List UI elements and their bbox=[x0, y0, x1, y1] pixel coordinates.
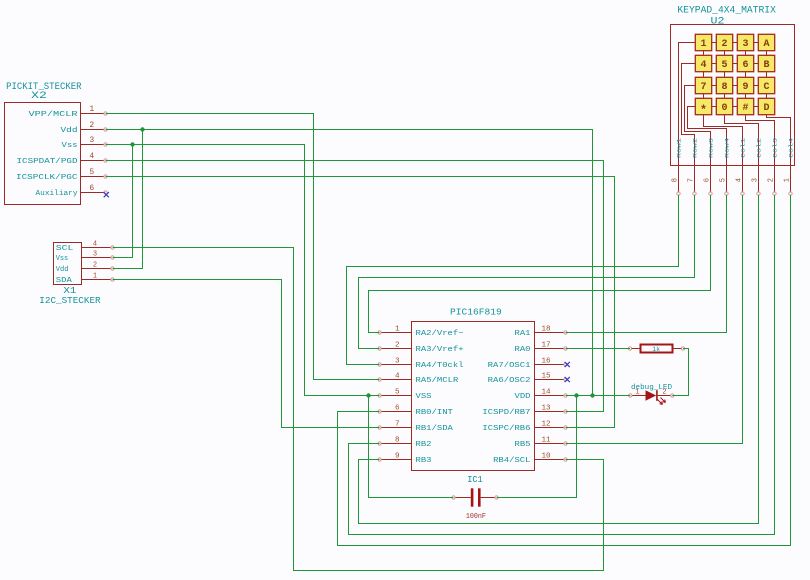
svg-text:RA1: RA1 bbox=[515, 330, 532, 338]
svg-text:RA7/OSC1: RA7/OSC1 bbox=[488, 362, 531, 370]
keypad key # bbox=[737, 98, 753, 114]
IC1 pin 13 ICSPD/RB7 bbox=[482, 404, 567, 417]
keypad key A bbox=[758, 34, 774, 50]
keypad pin 1 Col4 bbox=[784, 137, 795, 195]
X1 pin 2 Vdd bbox=[56, 262, 114, 274]
wire net Vdd branch to X1 pin2 bbox=[113, 130, 143, 269]
no-connect on IC1 pin 16 RA7/OSC1 bbox=[565, 362, 570, 367]
X2 pin 6 Auxiliary bbox=[36, 184, 108, 198]
svg-text:0: 0 bbox=[721, 103, 727, 114]
wire net ICSPDAT/PGD: X2 pin4 to IC1 pin13 bbox=[106, 161, 604, 412]
svg-text:1: 1 bbox=[93, 273, 97, 281]
keypad key 2 bbox=[716, 34, 732, 50]
keypad key C bbox=[758, 77, 774, 93]
svg-text:KEYPAD_4X4_MATRIX: KEYPAD_4X4_MATRIX bbox=[677, 6, 776, 17]
svg-text:Col1: Col1 bbox=[740, 137, 747, 158]
svg-text:4: 4 bbox=[395, 372, 400, 380]
IC U1 IC1 PIC16F819 body bbox=[412, 322, 535, 471]
IC1 pin 9 RB3 bbox=[378, 452, 432, 465]
connector X1 title I2C_STECKER bbox=[39, 296, 101, 306]
keypad pin 5 Row4 bbox=[720, 137, 731, 195]
keypad title KEYPAD_4X4_MATRIX bbox=[677, 6, 776, 17]
svg-text:2: 2 bbox=[93, 262, 97, 270]
IC1 pin 2 RA3/Vref+ bbox=[378, 341, 464, 354]
svg-text:1: 1 bbox=[89, 105, 94, 114]
connector X1 refdes X1 bbox=[63, 286, 76, 296]
svg-text:X2: X2 bbox=[31, 91, 47, 102]
capacitor pin 2 bbox=[481, 496, 499, 499]
svg-text:17: 17 bbox=[542, 341, 551, 349]
svg-text:SDA: SDA bbox=[56, 277, 73, 285]
resistor R1 value 1k bbox=[652, 346, 660, 353]
svg-text:2: 2 bbox=[395, 341, 400, 349]
connector X2 title PICKIT_STECKER bbox=[6, 82, 81, 93]
capacitor value 100nF bbox=[466, 513, 486, 521]
LED debug_LED body bbox=[646, 390, 666, 404]
X2 pin 2 Vdd bbox=[61, 121, 108, 135]
keypad internal net Col1 bbox=[704, 115, 743, 166]
wire net Vss branch: IC1 pin5 junction to capacitor pin1 bbox=[369, 396, 454, 498]
svg-text:9: 9 bbox=[395, 452, 400, 460]
svg-text:3: 3 bbox=[395, 357, 400, 365]
svg-text:10: 10 bbox=[542, 452, 552, 460]
svg-text:8: 8 bbox=[721, 82, 727, 93]
wire net SCL: X1 pin4 to IC1 pin10 RB4/SCL bbox=[113, 248, 604, 571]
IC1 pin 15 RA6/OSC2 bbox=[488, 372, 568, 385]
junction Vdd / X1 branch bbox=[140, 127, 144, 131]
junction Vss / X1 branch bbox=[130, 142, 134, 146]
keypad pin 7 Row2 bbox=[688, 137, 699, 195]
X2 pin 3 Vss bbox=[62, 136, 108, 150]
keypad key 1 bbox=[695, 34, 711, 50]
svg-text:2: 2 bbox=[768, 178, 776, 182]
no-connect on IC1 pin 15 RA6/OSC2 bbox=[565, 377, 570, 382]
svg-text:VSS: VSS bbox=[416, 393, 433, 401]
keypad internal net Col3 bbox=[746, 115, 775, 166]
keypad internal net Col2 bbox=[725, 115, 759, 166]
svg-text:3: 3 bbox=[93, 251, 97, 259]
svg-text:RB0/INT: RB0/INT bbox=[416, 409, 454, 417]
keypad key 9 bbox=[737, 77, 753, 93]
wire net Vss branch to X1 pin3 bbox=[113, 145, 133, 258]
svg-text:3: 3 bbox=[742, 39, 748, 50]
X1 pin 4 SCL bbox=[56, 241, 114, 253]
IC1 pin 16 RA7/OSC1 bbox=[488, 357, 568, 370]
wire net SDA: X1 pin1 to IC1 pin7 RB1/SDA bbox=[113, 280, 380, 428]
wire net VDD: IC1 pin14 to LED pin1 bbox=[566, 395, 631, 397]
LED debug_LED pin 2 bbox=[657, 389, 674, 397]
IC1 pin 5 VSS bbox=[378, 388, 432, 401]
svg-text:6: 6 bbox=[704, 178, 712, 182]
X1 pin 3 Vss bbox=[56, 251, 114, 263]
svg-text:13: 13 bbox=[542, 404, 552, 412]
svg-text:2: 2 bbox=[662, 389, 666, 397]
keypad internal row and column connection wires bbox=[704, 43, 767, 107]
svg-text:RA0: RA0 bbox=[515, 346, 532, 354]
svg-text:5: 5 bbox=[395, 388, 400, 396]
keypad key * bbox=[695, 98, 711, 117]
svg-text:18: 18 bbox=[542, 325, 552, 333]
svg-text:9: 9 bbox=[742, 82, 748, 93]
svg-text:D: D bbox=[763, 103, 769, 114]
svg-text:#: # bbox=[742, 103, 748, 114]
svg-text:1: 1 bbox=[700, 39, 706, 50]
X2 pin 4 ICSPDAT/PGD bbox=[17, 152, 108, 166]
junction VDD / Vdd from X2 bbox=[590, 393, 594, 397]
svg-text:RB1/SDA: RB1/SDA bbox=[416, 425, 454, 433]
svg-text:7: 7 bbox=[395, 420, 400, 428]
IC1 pin 10 RB4/SCL bbox=[493, 452, 567, 465]
keypad pin 3 Col2 bbox=[752, 137, 763, 195]
svg-text:RB2: RB2 bbox=[416, 441, 432, 449]
svg-text:A: A bbox=[763, 39, 769, 50]
wire net Vss: X2 pin3 to IC1 pin5 VSS bbox=[106, 145, 380, 396]
svg-text:4: 4 bbox=[700, 60, 706, 71]
svg-text:RB3: RB3 bbox=[416, 457, 433, 465]
svg-text:C: C bbox=[763, 82, 769, 93]
LED debug_LED label bbox=[631, 384, 672, 392]
svg-text:3: 3 bbox=[89, 136, 94, 145]
resistor R1 1k body bbox=[641, 345, 673, 353]
IC1 pin 12 ICSPC/RB6 bbox=[482, 420, 567, 433]
IC1 pin 6 RB0/INT bbox=[378, 404, 454, 417]
IC1 pin 8 RB2 bbox=[378, 436, 432, 449]
svg-text:Vdd: Vdd bbox=[56, 266, 69, 274]
svg-text:3: 3 bbox=[752, 178, 760, 182]
svg-text:Row1: Row1 bbox=[676, 137, 683, 158]
keypad internal net Row3 bbox=[685, 86, 711, 166]
svg-text:2: 2 bbox=[89, 121, 94, 130]
IC1 pin 7 RB1/SDA bbox=[378, 420, 454, 433]
no-connect on X2 pin 6 Auxiliary bbox=[104, 192, 109, 197]
wire net Row1: keypad pin8 to IC1 pin3 RA4 bbox=[347, 195, 679, 365]
svg-text:VPP/MCLR: VPP/MCLR bbox=[29, 111, 79, 119]
svg-text:ICSPC/RB6: ICSPC/RB6 bbox=[482, 425, 531, 433]
wire net Row3: keypad pin6 to IC1 pin1 RA2 bbox=[369, 195, 711, 333]
svg-text:RA2/Vref−: RA2/Vref− bbox=[416, 330, 465, 338]
keypad key 5 bbox=[716, 55, 732, 71]
svg-text:ICSPCLK/PGC: ICSPCLK/PGC bbox=[16, 174, 78, 182]
capacitor 100nF body bbox=[471, 488, 481, 506]
svg-text:4: 4 bbox=[89, 152, 94, 161]
svg-text:RB5: RB5 bbox=[515, 441, 532, 449]
IC1 pin 1 RA2/Vref− bbox=[378, 325, 464, 338]
svg-text:7: 7 bbox=[700, 82, 706, 93]
keypad key 4 bbox=[695, 55, 711, 71]
capacitor pin 1 bbox=[452, 496, 471, 499]
IC1 refdes IC1 bbox=[467, 474, 483, 485]
svg-text:Row3: Row3 bbox=[708, 137, 715, 158]
svg-text:X1: X1 bbox=[63, 286, 76, 296]
connector X2 PICKIT_STECKER body bbox=[5, 103, 81, 205]
svg-text:PIC16F819: PIC16F819 bbox=[450, 307, 502, 318]
keypad pin 6 Row3 bbox=[704, 137, 715, 195]
wire net Row2: keypad pin7 to IC1 pin2 RA3 bbox=[359, 195, 695, 349]
keypad key 0 bbox=[716, 98, 732, 114]
IC1 pin 11 RB5 bbox=[515, 436, 568, 449]
svg-text:Vdd: Vdd bbox=[61, 127, 78, 135]
svg-text:1: 1 bbox=[395, 325, 400, 333]
svg-text:1: 1 bbox=[784, 178, 792, 182]
svg-text:8: 8 bbox=[395, 436, 400, 444]
wire net RA0: IC1 pin17 to resistor R1 pin1 bbox=[566, 348, 631, 350]
keypad internal net Row2 bbox=[682, 64, 696, 166]
svg-text:11: 11 bbox=[542, 436, 552, 444]
svg-text:Row2: Row2 bbox=[692, 137, 699, 158]
keypad key D bbox=[758, 98, 774, 114]
keypad key 3 bbox=[737, 34, 753, 50]
wire net Col3: keypad pin2 to IC1 pin8 RB2 bbox=[349, 195, 775, 535]
IC1 title PIC16F819 bbox=[450, 307, 502, 318]
svg-text:SCL: SCL bbox=[56, 245, 74, 253]
svg-text:Col2: Col2 bbox=[756, 137, 763, 158]
svg-text:RB4/SCL: RB4/SCL bbox=[493, 457, 531, 465]
X1 pin 1 SDA bbox=[56, 273, 114, 285]
svg-text:5: 5 bbox=[721, 60, 727, 71]
svg-text:ICSPD/RB7: ICSPD/RB7 bbox=[482, 409, 530, 417]
keypad pin 2 Col3 bbox=[768, 137, 779, 195]
junction VSS / capacitor branch bbox=[366, 393, 370, 397]
svg-text:RA6/OSC2: RA6/OSC2 bbox=[488, 377, 531, 385]
keypad internal net Row1 bbox=[679, 43, 696, 166]
svg-text:4: 4 bbox=[736, 178, 744, 182]
svg-text:Auxiliary: Auxiliary bbox=[36, 190, 78, 198]
wire net Col1: keypad pin4 to IC1 pin11 RB5 bbox=[566, 195, 743, 444]
svg-text:VDD: VDD bbox=[515, 393, 532, 401]
wire net Vdd: X2 pin2 to VDD junction bbox=[106, 130, 593, 396]
keypad refdes U2 bbox=[711, 17, 725, 28]
svg-text:1k: 1k bbox=[652, 346, 660, 353]
svg-text:RA4/T0ckl: RA4/T0ckl bbox=[416, 362, 465, 370]
wire net resistor R1 pin2 to LED pin2 bbox=[672, 349, 688, 396]
svg-text:12: 12 bbox=[542, 420, 552, 428]
svg-text:ICSPDAT/PGD: ICSPDAT/PGD bbox=[17, 158, 79, 166]
keypad internal net Row4 bbox=[688, 107, 727, 166]
wire net Row4: keypad pin5 to IC1 pin18 RA1 bbox=[566, 195, 727, 333]
svg-text:5: 5 bbox=[720, 178, 728, 182]
keypad key 7 bbox=[695, 77, 711, 93]
svg-text:4: 4 bbox=[93, 241, 97, 249]
connector X2 refdes X2 bbox=[31, 91, 47, 102]
svg-text:6: 6 bbox=[89, 184, 94, 193]
svg-text:8: 8 bbox=[672, 178, 680, 182]
svg-text:Col3: Col3 bbox=[772, 137, 779, 158]
svg-text:B: B bbox=[763, 60, 769, 71]
svg-text:15: 15 bbox=[542, 372, 552, 380]
keypad pin 4 Col1 bbox=[736, 137, 747, 195]
keypad key 6 bbox=[737, 55, 753, 71]
wire net Col2: keypad pin3 to IC1 pin9 RB3 bbox=[359, 195, 759, 524]
junction VDD / capacitor branch bbox=[574, 393, 578, 397]
svg-text:Col4: Col4 bbox=[788, 137, 795, 158]
svg-text:100nF: 100nF bbox=[466, 513, 486, 521]
svg-text:Vss: Vss bbox=[62, 142, 78, 150]
svg-text:1: 1 bbox=[635, 389, 639, 397]
svg-text:Vss: Vss bbox=[56, 255, 68, 263]
wire net VDD branch: VDD junction to capacitor pin2 bbox=[497, 396, 577, 498]
keypad pin 8 Row1 bbox=[672, 137, 683, 195]
resistor R1 pin 1 bbox=[628, 347, 640, 350]
resistor R1 pin 2 bbox=[673, 347, 685, 350]
svg-text:I2C_STECKER: I2C_STECKER bbox=[39, 296, 101, 306]
keypad internal net Col4 bbox=[767, 115, 791, 166]
IC1 pin 3 RA4/T0ckl bbox=[378, 357, 464, 370]
X2 pin 1 VPP/MCLR bbox=[29, 105, 108, 119]
wire net Col4: keypad pin1 to IC1 pin6 RB0/INT bbox=[338, 195, 791, 546]
svg-text:7: 7 bbox=[688, 178, 696, 182]
wire net VPP/MCLR: X2 pin1 to IC1 pin4 bbox=[106, 114, 380, 380]
wire net ICSPCLK/PGC: X2 pin5 to IC1 pin12 bbox=[106, 177, 615, 428]
keypad key B bbox=[758, 55, 774, 71]
svg-text:14: 14 bbox=[542, 388, 552, 396]
svg-text:6: 6 bbox=[742, 60, 748, 71]
svg-text:U2: U2 bbox=[711, 17, 725, 28]
svg-text:2: 2 bbox=[721, 39, 727, 50]
svg-text:IC1: IC1 bbox=[467, 474, 483, 485]
IC1 pin 17 RA0 bbox=[515, 341, 568, 354]
keypad U2 KEYPAD_4X4_MATRIX body bbox=[671, 25, 795, 166]
keypad key 8 bbox=[716, 77, 732, 93]
svg-text:6: 6 bbox=[395, 404, 400, 412]
svg-text:5: 5 bbox=[89, 168, 94, 177]
IC1 pin 14 VDD bbox=[515, 388, 568, 401]
svg-text:Row4: Row4 bbox=[724, 137, 731, 158]
svg-text:RA5/MCLR: RA5/MCLR bbox=[416, 377, 459, 385]
IC1 pin 18 RA1 bbox=[515, 325, 568, 338]
svg-text:16: 16 bbox=[542, 357, 552, 365]
connector X1 I2C_STECKER body bbox=[54, 243, 82, 285]
svg-text:RA3/Vref+: RA3/Vref+ bbox=[416, 346, 465, 354]
X2 pin 5 ICSPCLK/PGC bbox=[16, 168, 107, 182]
LED debug_LED pin 1 bbox=[629, 389, 646, 397]
IC1 pin 4 RA5/MCLR bbox=[378, 372, 459, 385]
